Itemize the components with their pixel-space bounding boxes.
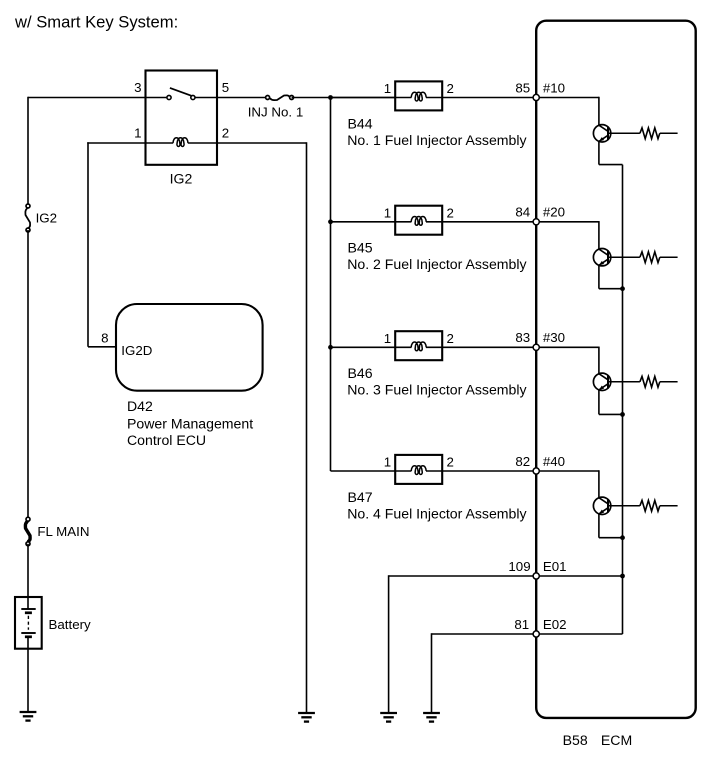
battery: [15, 597, 91, 649]
svg-text:83: 83: [515, 330, 530, 345]
node injector feed junction: [328, 95, 333, 100]
svg-text:B45: B45: [348, 240, 373, 256]
svg-text:E01: E01: [543, 559, 567, 574]
resistor R4: [608, 500, 678, 511]
transistor Q3: [593, 373, 610, 390]
svg-text:8: 8: [101, 331, 108, 346]
wire: [536, 97, 599, 125]
svg-text:INJ No. 1: INJ No. 1: [248, 104, 304, 119]
svg-text:Power Management: Power Management: [127, 415, 253, 431]
svg-text:IG2: IG2: [36, 210, 57, 225]
svg-text:B58: B58: [563, 732, 588, 748]
ground: [298, 713, 315, 722]
wire: [217, 97, 268, 99]
injector B45: [395, 206, 442, 235]
resistor R3: [608, 376, 678, 387]
svg-text:D42: D42: [127, 398, 153, 414]
wire: [27, 97, 29, 206]
svg-text:1: 1: [384, 205, 391, 220]
connector pin 84: [533, 219, 539, 225]
injector B46: [395, 331, 442, 360]
wire: [599, 141, 623, 164]
wire emitter bus: [622, 165, 624, 634]
node branch row 3: [328, 345, 333, 350]
svg-text:2: 2: [447, 455, 454, 470]
injector B47: [395, 455, 442, 484]
wire: [27, 544, 29, 597]
svg-text:3: 3: [134, 80, 141, 95]
svg-text:82: 82: [515, 454, 530, 469]
svg-text:1: 1: [384, 331, 391, 346]
svg-text:84: 84: [515, 205, 530, 220]
fusible link FL MAIN: [25, 517, 89, 546]
connector pin 109: [533, 573, 539, 579]
svg-text:5: 5: [222, 80, 229, 95]
ECM B58 box: [536, 21, 696, 718]
wire: [28, 97, 146, 99]
wire: [442, 346, 536, 348]
node emitter junction: [620, 412, 625, 417]
svg-text:No. 1 Fuel Injector Assembly: No. 1 Fuel Injector Assembly: [347, 132, 527, 148]
svg-text:81: 81: [514, 617, 529, 632]
transistor Q1: [593, 125, 610, 142]
svg-text:85: 85: [515, 80, 530, 95]
relay coil: [146, 138, 218, 147]
svg-text:2: 2: [447, 81, 454, 96]
svg-text:IG2: IG2: [170, 171, 193, 187]
connector pin 81: [533, 631, 539, 637]
ground: [20, 712, 37, 721]
wire: [442, 470, 536, 472]
wire: [27, 230, 29, 519]
connector pin 85: [533, 94, 539, 100]
label B58 ECM: [563, 732, 633, 748]
wire: [331, 221, 396, 223]
svg-text:2: 2: [447, 331, 454, 346]
svg-text:#10: #10: [543, 80, 565, 95]
fuse IG2: [25, 204, 57, 232]
wire: [536, 347, 599, 374]
svg-text:1: 1: [384, 455, 391, 470]
transistor Q2: [593, 249, 610, 266]
wire: [292, 97, 396, 99]
wire: [330, 98, 332, 472]
ECU D42 box: [116, 304, 263, 391]
wire: [536, 221, 599, 249]
svg-text:w/ Smart Key System:: w/ Smart Key System:: [14, 12, 178, 31]
wire: [599, 514, 623, 538]
wire E01: [389, 575, 623, 713]
svg-text:ECM: ECM: [601, 732, 632, 748]
wire: [87, 142, 145, 347]
transistor Q4: [593, 497, 610, 514]
relay IG2 box: [146, 71, 218, 165]
connector pin 83: [533, 344, 539, 350]
wire: [599, 390, 623, 415]
wire: [217, 142, 307, 713]
wire: [442, 221, 536, 223]
injector B44: [395, 81, 442, 110]
svg-text:1: 1: [384, 81, 391, 96]
svg-text:B47: B47: [348, 489, 373, 505]
node branch row 2: [328, 219, 333, 224]
ground: [380, 713, 397, 722]
wire: [536, 470, 599, 497]
svg-text:2: 2: [447, 205, 454, 220]
wire: [599, 265, 623, 288]
wire E02: [432, 633, 623, 713]
fuse INJ No. 1: [248, 95, 304, 119]
svg-text:E02: E02: [543, 617, 567, 632]
connector pin 82: [533, 468, 539, 474]
svg-text:1: 1: [134, 125, 141, 140]
node E01: [620, 574, 625, 579]
wire: [442, 97, 536, 99]
node emitter junction: [620, 286, 625, 291]
resistor R1: [608, 128, 678, 139]
wire: [331, 346, 396, 348]
svg-text:No. 4 Fuel Injector Assembly: No. 4 Fuel Injector Assembly: [347, 505, 527, 521]
svg-text:#30: #30: [543, 330, 565, 345]
svg-text:Battery: Battery: [49, 617, 92, 632]
wire: [331, 470, 396, 472]
svg-text:#40: #40: [543, 454, 565, 469]
wire: [27, 649, 29, 712]
node emitter junction: [620, 535, 625, 540]
svg-text:2: 2: [222, 125, 229, 140]
svg-text:#20: #20: [543, 205, 565, 220]
svg-text:FL MAIN: FL MAIN: [37, 524, 89, 539]
resistor R2: [608, 252, 678, 263]
svg-text:109: 109: [508, 559, 530, 574]
ground: [423, 713, 440, 722]
svg-text:No. 2 Fuel Injector Assembly: No. 2 Fuel Injector Assembly: [347, 256, 527, 272]
svg-text:IG2D: IG2D: [121, 343, 152, 358]
svg-text:Control ECU: Control ECU: [127, 432, 206, 448]
svg-text:B46: B46: [348, 365, 373, 381]
relay switch: [146, 88, 218, 100]
wire: [331, 97, 396, 99]
node branch row 4: [0, 0, 1, 1]
svg-text:B44: B44: [348, 115, 373, 131]
svg-text:No. 3 Fuel Injector Assembly: No. 3 Fuel Injector Assembly: [347, 382, 527, 398]
